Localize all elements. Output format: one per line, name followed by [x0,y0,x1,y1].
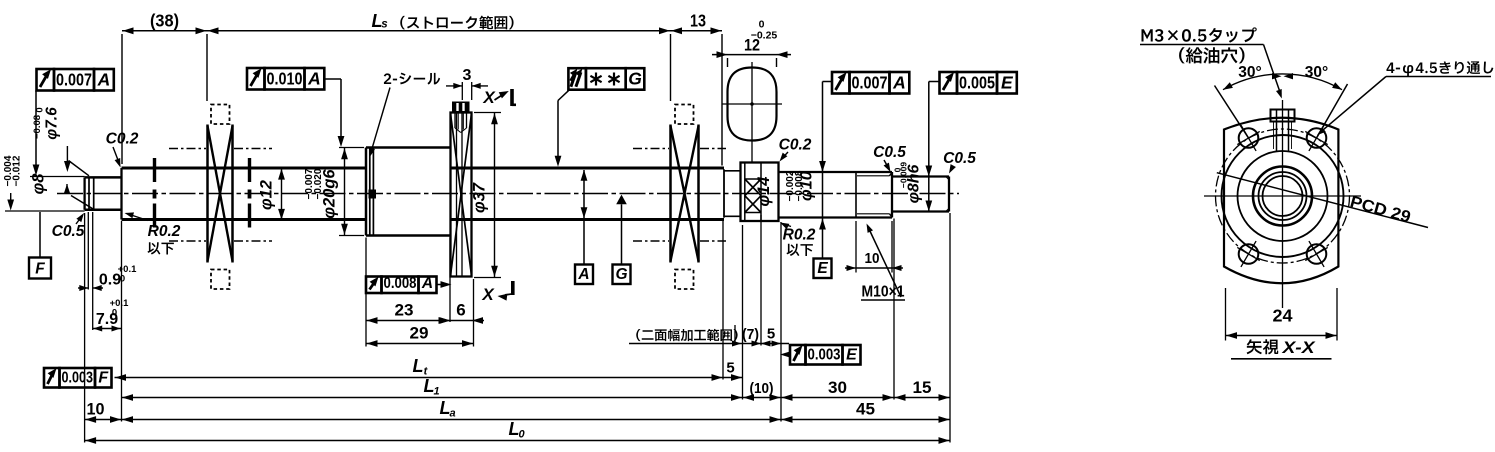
svg-text:0.003: 0.003 [808,346,841,363]
radius R0.2 right [780,223,816,257]
datum E box [814,259,832,279]
svg-text:A: A [421,275,433,292]
svg-text:φ12: φ12 [258,180,276,210]
dimension Ls stroke range [207,11,671,101]
chamfer C0.2 left [106,131,139,168]
svg-text:5: 5 [726,360,734,377]
runout frame 0.003 E [780,345,861,365]
dimension 15 [894,213,950,443]
svg-text:−0.008: −0.008 [794,170,805,201]
datum G triangle [616,195,627,265]
centerline main shaft [57,193,959,195]
end view circle phi boss outer [1222,135,1344,257]
wrench flats cross [745,163,761,222]
phi8h6 dimension with leader [893,82,940,212]
datum F box [29,258,51,279]
runout frame 0.007 A right [832,72,909,94]
label arrow view X-X [1231,339,1332,359]
svg-text:C0.5: C0.5 [52,223,85,240]
screw OD line bottom left [122,218,367,221]
nut body phi20g6 [366,148,451,236]
svg-text:A: A [892,72,906,92]
runout frame 0.010 A [247,68,344,147]
center hole marks left end [69,161,95,210]
screw shaft left face [120,168,122,220]
screw OD line top right [451,166,725,169]
screw OD line top left [122,166,367,169]
left bearing seat lines [169,149,272,242]
svg-text:E: E [817,260,828,277]
svg-text:0.007: 0.007 [56,69,92,89]
dimension 30 [781,219,894,401]
phi20g6 dimension [304,148,364,236]
dimension 7.9 [93,212,129,332]
chamfer C0.5 right end [943,150,976,174]
dimension 3 oil hole [446,67,488,100]
svg-text:E: E [1001,72,1014,92]
svg-text:1: 1 [433,386,439,398]
runout frame 0.008 A nut flange [366,275,452,293]
svg-text:13: 13 [690,11,706,31]
end view circle boss inner [1238,151,1328,241]
svg-text:φ7.6: φ7.6 [44,107,61,140]
svg-text:a: a [449,408,455,420]
dimension 13 [671,11,723,166]
svg-text:0.005: 0.005 [959,72,995,92]
svg-text:15: 15 [913,378,932,397]
label two-face-width machining range [629,329,738,344]
end view centerlines [1204,100,1361,308]
section arrow X top [482,88,516,107]
dimension 24 [1226,288,1338,341]
phi10 dimension with runout frame leader [785,82,832,259]
right bearing seat lines [633,149,726,242]
svg-text:L: L [413,356,424,376]
phi14 label [755,177,773,207]
svg-text:R0.2: R0.2 [783,227,816,244]
svg-text:24: 24 [1273,306,1293,326]
dimension 5 after thread [723,360,743,381]
svg-text:G: G [615,266,627,283]
phi10 section [779,172,857,218]
end view PCD circle [1216,129,1350,263]
svg-text:0: 0 [120,274,125,285]
label 2-seals [369,73,440,157]
svg-text:6: 6 [456,301,465,320]
datum A box [575,265,593,285]
svg-text:C0.5: C0.5 [943,150,976,167]
datum G box [613,265,631,285]
phi8 dimension [3,155,48,210]
right bearing [671,105,699,290]
svg-text:C0.2: C0.2 [779,137,812,154]
phi8h6 end journal [892,177,949,212]
svg-text:30°: 30° [1305,64,1328,81]
svg-text:29: 29 [410,324,429,343]
svg-text:0.007: 0.007 [852,72,888,92]
dimension (38) [122,11,207,165]
dimension 29 [366,279,474,347]
chamfer C0.2 right [779,137,812,162]
svg-text:s: s [381,19,387,31]
svg-text:10: 10 [865,250,880,267]
chamfer C0.5 mid [873,144,906,172]
thread groove mark 2 [248,158,251,228]
flats cross-section view [722,62,782,162]
svg-text:−0.08: −0.08 [32,115,43,139]
thread M10x1 label [861,224,905,301]
svg-text:φ14: φ14 [755,177,773,207]
svg-text:10: 10 [87,400,105,419]
svg-text:0: 0 [518,429,525,441]
dimension L0 overall [85,419,950,444]
thread groove mark 1 [153,158,156,228]
dimension (7) and 5 flats [728,215,789,422]
dimension 0.9 groove [78,212,137,330]
phi7.6 dimension [32,107,71,194]
label PCD 29 [1217,173,1428,228]
svg-text:23: 23 [395,301,414,320]
phi37 dimension [471,113,502,278]
svg-text:X: X [481,285,495,304]
dimension L1 [122,376,743,401]
thread runout step [724,169,741,217]
dimension 45 [781,400,950,423]
left bearing [208,105,233,290]
end view 30 degree extension lines [1215,84,1348,138]
svg-text:A: A [577,266,589,283]
svg-text:30: 30 [828,378,847,397]
svg-text:C0.2: C0.2 [106,131,139,148]
svg-text:(7): (7) [742,326,759,343]
end view 4 bolt holes [1237,125,1327,267]
runout frame ** G [555,68,645,167]
end view bore circles [1253,167,1312,226]
svg-text:−0.012: −0.012 [12,155,23,186]
svg-text:3: 3 [463,67,472,84]
end view M3 tap hole [1271,110,1295,153]
dimension (10) [743,380,782,401]
svg-text:F: F [98,369,109,386]
dimension 6 [440,301,485,324]
svg-text:−0.009: −0.009 [899,162,909,189]
svg-text:0.008: 0.008 [384,275,417,292]
svg-text:A: A [97,69,111,89]
oil hole M3 on flange [452,102,470,133]
datum A diameter line [581,170,588,265]
runout frame 0.003 F [44,368,112,388]
end view flange outline [1224,118,1338,284]
svg-text:φ8: φ8 [30,173,48,195]
phi14 flat section [741,163,779,222]
svg-text:(38): (38) [150,11,179,31]
svg-text:0: 0 [112,308,117,319]
svg-text:A: A [307,68,321,88]
snap ring groove 0.9 [89,177,94,210]
svg-text:C0.5: C0.5 [873,144,906,161]
svg-text:G: G [628,69,642,89]
dimension Lt thread length [115,221,724,422]
runout frame 0.007 A left [33,69,114,176]
radius R0.2 left [125,212,181,254]
svg-text:F: F [35,261,45,278]
svg-text:X: X [482,88,496,107]
section arrow X bottom [481,281,512,304]
chamfer C0.5 left end [52,213,85,240]
dimension La [122,398,782,423]
datum F line [39,212,41,258]
svg-text:R0.2: R0.2 [148,223,181,240]
svg-text:E: E [846,346,858,363]
svg-text:0.003: 0.003 [62,369,94,386]
phi8 extension lines [5,177,85,212]
svg-text:−0.25: −0.25 [751,30,778,42]
dimension 23 [366,238,450,347]
left journal phi8 [85,177,122,209]
svg-text:5: 5 [767,326,775,343]
screw OD line bottom right [451,218,725,221]
svg-text:−0.020: −0.020 [313,168,324,199]
dimension 30 deg arcs [1223,64,1342,90]
dimension 10 left [85,213,122,443]
svg-text:0.010: 0.010 [267,68,303,88]
svg-text:X-X: X-X [1281,339,1315,357]
runout frame 0.005 E [940,72,1017,94]
phi12 dimension [258,169,285,220]
M10 thread section [856,172,892,218]
label M3x0.5 tap oil hole [1140,27,1282,98]
dimension 10 thread length [845,221,903,273]
dimension 12 across flats [712,19,791,68]
svg-text:45: 45 [856,400,875,419]
svg-text:φ37: φ37 [471,182,489,213]
nut flange disc phi37 [451,113,472,277]
svg-text:(10): (10) [750,380,774,397]
nut seal lines [369,148,377,236]
label 4-phi4.5 drill through [1317,61,1493,135]
svg-text:30°: 30° [1238,64,1261,81]
